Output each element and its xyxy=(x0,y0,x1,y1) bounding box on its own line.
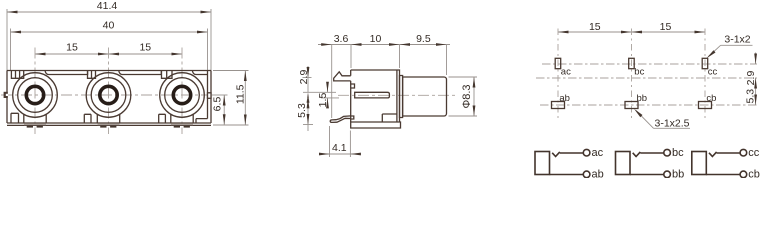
svg-text:bc: bc xyxy=(634,67,644,78)
extension ticks xyxy=(303,77,312,79)
jack B feet xyxy=(98,124,120,126)
jack A thick ring xyxy=(26,86,43,103)
barrel xyxy=(403,77,447,116)
svg-text:3-1x2: 3-1x2 xyxy=(724,34,750,46)
top notch boxes after slot 1 xyxy=(88,71,96,79)
jack A outer circle xyxy=(13,73,58,118)
svg-text:40: 40 xyxy=(103,20,115,32)
top slot 2 xyxy=(119,71,162,75)
row centerline mid xyxy=(536,77,757,79)
jack symbol 1 terminal ac xyxy=(583,149,590,156)
jack B pedestal xyxy=(97,114,119,123)
jack C middle circle xyxy=(165,78,200,113)
jack symbol 3 switch contact xyxy=(709,152,717,157)
centerline horizontal through jack centers xyxy=(1,94,209,96)
jack A pedestal xyxy=(24,114,46,123)
interior box bottom right xyxy=(382,114,397,122)
svg-text:15: 15 xyxy=(139,42,151,54)
svg-text:cc: cc xyxy=(708,67,718,78)
right bump xyxy=(208,93,212,99)
bottom box between B-C xyxy=(159,114,166,123)
notch at pin entry xyxy=(351,116,354,119)
bent pin bottom xyxy=(330,116,351,123)
dim line 15 15 xyxy=(35,53,182,55)
base plate xyxy=(351,122,401,128)
body inner right edge xyxy=(207,71,209,119)
centerline vertical jack A xyxy=(34,48,36,135)
jack symbol 3 body xyxy=(692,152,707,175)
dim 5.3 right xyxy=(755,78,757,105)
dim 41.4 extension line right xyxy=(210,9,212,71)
dim 11.5 line xyxy=(244,71,246,126)
svg-text:6.5: 6.5 xyxy=(212,97,224,112)
svg-text:ac: ac xyxy=(592,147,604,159)
side centerline xyxy=(338,94,458,96)
svg-text:cb: cb xyxy=(748,169,760,178)
svg-text:bb: bb xyxy=(672,169,684,178)
svg-text:5.3: 5.3 xyxy=(745,89,757,104)
jack symbol 2 terminal bc xyxy=(664,149,671,156)
left bump xyxy=(4,92,8,98)
svg-text:cc: cc xyxy=(748,147,760,159)
centerline vertical jack B xyxy=(108,48,110,135)
pad ac xyxy=(555,58,561,68)
jack symbol 3 terminal cc xyxy=(740,149,747,156)
jack C feet xyxy=(171,124,193,126)
side body inner right line xyxy=(396,70,398,122)
pad bc xyxy=(629,58,635,68)
svg-text:15: 15 xyxy=(660,21,672,33)
jack symbol 2 sleeve wire xyxy=(630,174,664,176)
jack B thick ring xyxy=(100,86,117,103)
top notch boxes after slot 2 xyxy=(162,71,173,79)
jack C outer circle xyxy=(160,73,205,118)
dim 41.4 extension line left xyxy=(6,9,8,71)
dim line 3.6 10 9.5 xyxy=(318,44,450,46)
jack symbol 2 terminal bb xyxy=(664,171,671,178)
top notch boxes left end xyxy=(11,71,23,79)
jack symbol 3 sleeve wire xyxy=(706,174,740,176)
jack C pedestal xyxy=(171,114,193,123)
jack symbol 3 terminal cb xyxy=(740,171,747,178)
dim 40 extension lines xyxy=(10,29,12,71)
jack symbol 1 tip wire xyxy=(560,152,584,154)
mount tab xyxy=(334,72,351,81)
jack symbol 1 switch contact xyxy=(552,152,560,157)
dim 2.9 / 5.3 stack xyxy=(307,66,309,78)
jack B outer circle xyxy=(86,73,131,118)
svg-text:1.5: 1.5 xyxy=(317,93,329,108)
jack C thick ring xyxy=(173,86,190,103)
top slot 1 xyxy=(45,71,88,75)
svg-text:cb: cb xyxy=(706,93,716,104)
svg-text:bb: bb xyxy=(637,93,648,104)
pad cb xyxy=(699,102,712,109)
dim 6.5 extension from bump xyxy=(212,94,228,96)
svg-text:3-1x2.5: 3-1x2.5 xyxy=(654,118,689,130)
jack symbol 2 tip wire xyxy=(640,152,664,154)
svg-text:15: 15 xyxy=(589,21,601,33)
dim phi 8.3 xyxy=(449,76,478,78)
bottom box between A-B xyxy=(84,114,91,123)
jack A middle circle xyxy=(18,78,53,113)
jack symbol 2 body xyxy=(616,152,631,175)
svg-text:3.6: 3.6 xyxy=(334,33,349,45)
svg-text:5.3: 5.3 xyxy=(296,103,308,118)
centerline vertical jack C xyxy=(181,48,183,135)
svg-text:ab: ab xyxy=(592,169,604,178)
bottom box left end xyxy=(11,113,19,123)
dim 2.9 right xyxy=(755,53,757,65)
svg-text:41.4: 41.4 xyxy=(97,0,118,12)
column centerline c xyxy=(704,29,706,119)
dim 4.1 xyxy=(329,126,331,157)
svg-text:ab: ab xyxy=(559,93,570,104)
side body xyxy=(351,70,400,122)
svg-text:4.1: 4.1 xyxy=(332,142,347,154)
svg-text:bc: bc xyxy=(672,147,684,159)
row centerline top xyxy=(542,63,757,65)
dim line 15 15 footprint xyxy=(558,31,705,33)
svg-text:10: 10 xyxy=(370,33,382,45)
extension lines for top dims xyxy=(331,44,333,118)
jack B middle circle xyxy=(91,78,126,113)
dim line 40 xyxy=(11,31,208,33)
dim 6.5 line xyxy=(223,95,225,125)
dim extension bottom shared xyxy=(213,124,249,126)
contact pin xyxy=(355,92,390,98)
pad ab xyxy=(552,102,565,109)
jack symbol 1 body xyxy=(535,152,550,175)
dim line 41.4 xyxy=(7,11,211,13)
svg-text:9.5: 9.5 xyxy=(416,33,431,45)
svg-text:Φ8.3: Φ8.3 xyxy=(461,84,473,108)
column centerline a xyxy=(557,29,559,119)
top slot 3 xyxy=(192,71,207,75)
body outline xyxy=(7,71,211,126)
svg-text:11.5: 11.5 xyxy=(234,84,246,104)
svg-text:15: 15 xyxy=(66,42,78,54)
svg-text:ac: ac xyxy=(561,67,571,78)
dim 11.5 extension top xyxy=(213,70,249,72)
small notch below tab xyxy=(351,84,355,88)
row centerline bottom xyxy=(540,104,757,106)
flange xyxy=(400,76,403,118)
svg-text:2.9: 2.9 xyxy=(298,70,310,85)
jack symbol 2 switch contact xyxy=(633,152,641,157)
dim 1.5 xyxy=(327,84,329,93)
jack A feet xyxy=(24,124,46,126)
jack symbol 1 terminal ab xyxy=(583,171,590,178)
column centerline b xyxy=(631,29,633,119)
jack symbol 3 tip wire xyxy=(717,152,741,154)
bottom step right end xyxy=(196,119,208,123)
pad bb xyxy=(625,102,638,109)
jack symbol 1 sleeve wire xyxy=(550,174,584,176)
pad cc xyxy=(702,58,708,68)
